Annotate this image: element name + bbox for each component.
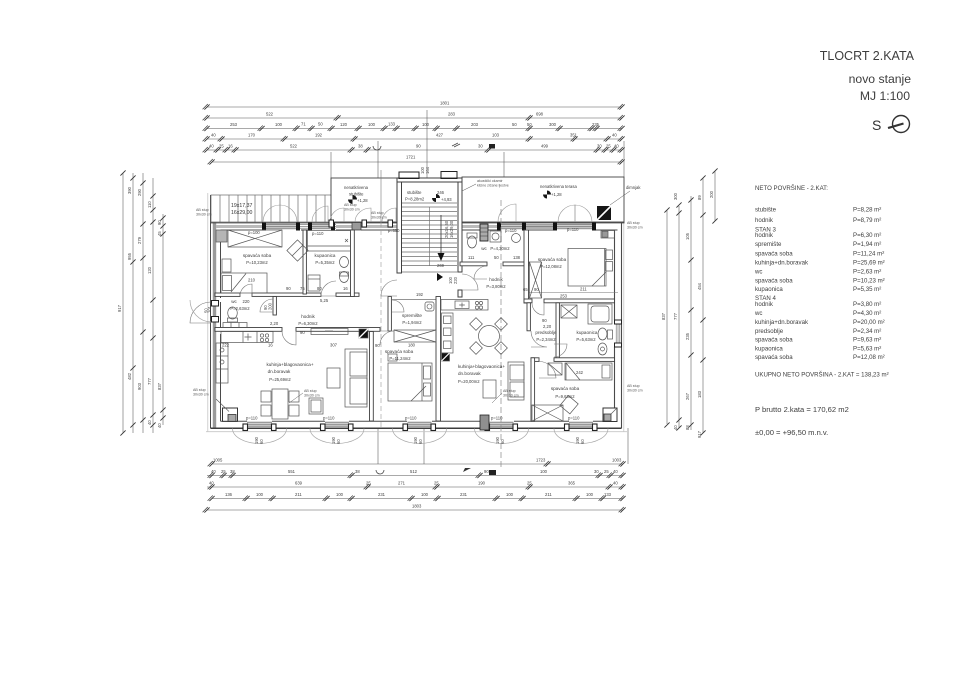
svg-text:P=2,63m2: P=2,63m2 — [230, 306, 250, 311]
svg-text:170: 170 — [248, 133, 256, 138]
ticks left c2 — [130, 175, 135, 180]
svg-text:16: 16 — [343, 286, 348, 291]
dim line row5 — [207, 149, 622, 151]
svg-text:kuhinja+blagovaonica+: kuhinja+blagovaonica+ — [267, 362, 314, 367]
stair block walls — [397, 178, 462, 297]
right dim stub 200 — [714, 171, 716, 221]
wall L predsoblje west — [527, 303, 530, 331]
svg-text:1803: 1803 — [412, 504, 422, 509]
ticks right c1 — [664, 207, 669, 212]
svg-text:136: 136 — [225, 492, 233, 497]
kitchen4 fridge column — [442, 313, 454, 353]
dim line 1721 — [212, 161, 622, 163]
small interior dim numbers — [222, 255, 587, 375]
svg-text:133: 133 — [388, 122, 396, 127]
svg-text:P=25,69 m²: P=25,69 m² — [853, 260, 885, 267]
door arc bedroom963 — [539, 361, 556, 378]
right exterior wall — [615, 223, 622, 428]
ticks left c5 — [160, 215, 165, 220]
wall H center party wall — [436, 297, 441, 422]
svg-text:300: 300 — [549, 122, 557, 127]
wall B bedroom/kupaonica — [303, 230, 306, 294]
svg-text:40: 40 — [209, 481, 214, 486]
svg-text:50: 50 — [527, 122, 532, 127]
svg-text:235: 235 — [592, 122, 600, 127]
small arc symbol on row5 — [373, 146, 381, 150]
window hatch strips top wall — [266, 223, 592, 230]
wall A hodnik north (left apt) — [215, 293, 240, 296]
spav12 wardrobe — [530, 262, 542, 298]
svg-text:wc: wc — [754, 310, 762, 317]
svg-text:P=25,69m2: P=25,69m2 — [269, 377, 291, 382]
svg-text:777: 777 — [673, 312, 678, 320]
svg-text:hodnik: hodnik — [301, 314, 315, 319]
svg-text:111: 111 — [468, 255, 475, 260]
svg-text:wc: wc — [231, 299, 237, 304]
entry door arc left wall — [190, 302, 211, 323]
svg-text:kupaonica: kupaonica — [577, 330, 598, 335]
leader line AB stup kitchen3 — [289, 393, 303, 403]
svg-text:stubište: stubište — [407, 190, 422, 195]
svg-text:kuhinja+dn.boravak: kuhinja+dn.boravak — [755, 260, 809, 267]
coffee table — [309, 398, 323, 414]
svg-text:2,20: 2,20 — [543, 324, 552, 329]
svg-text:90: 90 — [286, 286, 291, 291]
svg-text:269: 269 — [437, 263, 445, 268]
svg-text:279: 279 — [137, 236, 142, 244]
bottom windows thin lines — [247, 423, 593, 427]
svg-text:80: 80 — [317, 286, 322, 291]
svg-text:192: 192 — [315, 133, 323, 138]
tv sideboard — [311, 329, 348, 335]
sofa — [345, 349, 367, 407]
svg-text:203: 203 — [471, 122, 479, 127]
svg-text:spavaća soba: spavaća soba — [551, 386, 580, 391]
svg-text:AB stup: AB stup — [627, 384, 640, 388]
door arc spremiste — [392, 300, 404, 312]
svg-text:90: 90 — [375, 343, 380, 348]
svg-text:220: 220 — [243, 299, 251, 304]
dining table3 — [272, 389, 288, 419]
dim line row3 — [207, 128, 622, 130]
wall E hodnik south — [215, 328, 282, 332]
svg-text:242: 242 — [576, 370, 584, 375]
svg-text:dn.boravak: dn.boravak — [458, 371, 481, 376]
svg-text:100: 100 — [275, 122, 283, 127]
bed small table 963 — [548, 363, 562, 375]
svg-text:kuhinja+dn.boravak: kuhinja+dn.boravak — [755, 319, 809, 326]
stair down arrow — [440, 215, 442, 253]
bathtub kupaonica3 — [308, 231, 351, 252]
svg-text:spavaća soba: spavaća soba — [538, 257, 567, 262]
svg-text:200: 200 — [268, 302, 273, 310]
svg-text:AB stup: AB stup — [304, 389, 317, 393]
svg-text:190: 190 — [478, 481, 486, 486]
svg-text:499: 499 — [541, 144, 549, 149]
bottom dim numbers — [209, 458, 622, 509]
bedroom963 bed — [565, 363, 612, 380]
svg-text:AB stup: AB stup — [196, 208, 209, 212]
svg-text:71: 71 — [301, 122, 306, 127]
dim line b5 — [207, 509, 623, 511]
svg-text:40: 40 — [612, 133, 617, 138]
dim line b2 — [207, 475, 623, 477]
arcs at open stair bottom — [330, 208, 396, 222]
svg-text:p=110: p=110 — [323, 416, 335, 421]
svg-text:16x29,00: 16x29,00 — [449, 220, 454, 238]
left wall window posts wc3 — [212, 301, 219, 323]
door arc kupaonica3 — [321, 281, 336, 296]
svg-text:kupaonica: kupaonica — [755, 346, 783, 353]
left dim line 4 — [152, 178, 154, 433]
ticks top row3 — [203, 126, 210, 132]
water heater — [425, 302, 434, 311]
svg-text:16: 16 — [268, 343, 273, 348]
door arc wc3 — [260, 299, 273, 312]
svg-text:P=12,08 m²: P=12,08 m² — [853, 354, 885, 361]
door arc bedroom1124 — [380, 331, 394, 345]
svg-text:30x30 cm: 30x30 cm — [193, 393, 209, 397]
wardrobe bedroom1 — [228, 230, 282, 247]
coffee table4 — [483, 380, 496, 398]
svg-text:novo stanje: novo stanje — [849, 72, 912, 86]
window end posts top — [262, 222, 335, 231]
svg-text:spavaća soba: spavaća soba — [243, 253, 272, 258]
svg-text:stubište: stubište — [755, 207, 777, 214]
bedroom1124 wardrobe — [394, 330, 436, 342]
svg-text:138: 138 — [513, 255, 521, 260]
door arc kitchen3 — [282, 331, 296, 345]
svg-text:p=110: p=110 — [505, 228, 517, 233]
chairs — [261, 391, 271, 402]
svg-text:30x30 cm: 30x30 cm — [344, 208, 360, 212]
svg-text:231: 231 — [460, 492, 468, 497]
svg-text:211: 211 — [580, 287, 587, 292]
wall D wc east — [273, 297, 276, 316]
svg-text:AB stup: AB stup — [627, 221, 640, 225]
svg-text:40: 40 — [157, 423, 162, 428]
svg-text:522: 522 — [266, 112, 274, 117]
svg-text:120: 120 — [340, 122, 348, 127]
window hatch strips bottom wall — [247, 421, 593, 427]
bedroom1124 bed — [388, 363, 432, 401]
wall G spremiste west — [388, 297, 391, 332]
svg-text:5,25: 5,25 — [320, 298, 329, 303]
svg-text:MJ 1:100: MJ 1:100 — [860, 89, 910, 103]
svg-text:955: 955 — [127, 252, 132, 260]
svg-text:spavaća soba: spavaća soba — [755, 251, 793, 258]
svg-text:25: 25 — [434, 481, 439, 486]
svg-text:210: 210 — [248, 278, 256, 283]
top exterior wall right section — [462, 223, 625, 230]
top dim numbers — [209, 101, 619, 160]
kupaonica4 tub — [588, 304, 612, 324]
svg-text:dimnjak: dimnjak — [626, 185, 641, 190]
door arc stan4 entry — [462, 274, 478, 290]
dim line 1801 — [207, 106, 622, 108]
svg-text:spavaća soba: spavaća soba — [385, 349, 414, 354]
svg-text:AB stup: AB stup — [344, 203, 357, 207]
ticks top row6 — [208, 159, 215, 165]
svg-text:kupaonica: kupaonica — [755, 286, 783, 293]
wall K kupaonica4 south — [531, 358, 539, 362]
flue shaft hatched — [480, 224, 488, 241]
svg-text:spremište: spremište — [755, 241, 782, 248]
kupaonica4 bidet — [598, 343, 607, 355]
black square b2 — [489, 470, 496, 475]
ticks bottom b4 — [208, 496, 215, 502]
svg-text:40: 40 — [211, 469, 216, 474]
svg-text:16: 16 — [228, 144, 233, 149]
svg-text:90: 90 — [157, 220, 162, 225]
svg-text:wc: wc — [481, 246, 487, 251]
svg-text:2,20: 2,20 — [270, 321, 279, 326]
wall M bedroom963 west — [531, 358, 535, 422]
svg-text:100: 100 — [368, 122, 376, 127]
svg-text:25: 25 — [221, 469, 226, 474]
entry arrow stan4 — [437, 273, 443, 281]
svg-text:akustički okamir: akustički okamir — [477, 179, 503, 183]
svg-text:P=4,30m2: P=4,30m2 — [490, 246, 510, 251]
svg-text:P=8,28 m²: P=8,28 m² — [853, 207, 881, 214]
right dim line 3 — [690, 196, 692, 430]
small flag b2 — [463, 468, 471, 472]
svg-text:211: 211 — [295, 492, 302, 497]
svg-text:P=5,63 m²: P=5,63 m² — [853, 346, 881, 353]
ticks bottom b5 — [203, 507, 210, 513]
left dim line 5 — [162, 214, 164, 425]
leader line AB stup kitchen4 — [492, 393, 502, 403]
svg-text:30x30 cm: 30x30 cm — [196, 213, 212, 217]
svg-text:30: 30 — [478, 144, 483, 149]
svg-text:639: 639 — [295, 481, 303, 486]
svg-text:stubište: stubište — [349, 192, 364, 197]
svg-text:40: 40 — [613, 469, 618, 474]
svg-text:40: 40 — [209, 144, 214, 149]
svg-text:16x29,00: 16x29,00 — [231, 210, 252, 216]
svg-text:P=5,35m2: P=5,35m2 — [315, 260, 335, 265]
axis stubs top — [426, 110, 428, 178]
svg-text:90: 90 — [542, 318, 547, 323]
ticks right c3 — [688, 197, 693, 202]
bed bedroom1 — [221, 273, 267, 293]
svg-text:75: 75 — [300, 286, 305, 291]
svg-text:120: 120 — [147, 266, 152, 274]
svg-text:40: 40 — [614, 144, 619, 149]
svg-text:spavaća soba: spavaća soba — [755, 354, 793, 361]
svg-text:AB stup: AB stup — [193, 388, 206, 392]
ticks top row1 — [203, 104, 210, 110]
left exterior wall — [211, 195, 221, 428]
svg-text:220: 220 — [453, 276, 458, 284]
svg-text:1721: 1721 — [406, 155, 416, 160]
svg-text:P=20,00 m²: P=20,00 m² — [853, 319, 885, 326]
svg-text:25: 25 — [606, 144, 611, 149]
svg-text:522: 522 — [290, 144, 298, 149]
svg-text:103: 103 — [492, 133, 500, 138]
stair niche top left — [399, 172, 419, 179]
pinwheel symbol — [348, 195, 357, 204]
svg-text:110: 110 — [147, 201, 152, 208]
kupaonica4 shower — [561, 305, 577, 318]
svg-text:427: 427 — [436, 133, 444, 138]
sink kupaonica3 — [340, 257, 349, 268]
svg-text:551: 551 — [288, 469, 296, 474]
svg-text:P=1,94m2: P=1,94m2 — [402, 320, 422, 325]
svg-text:AB stup: AB stup — [503, 389, 516, 393]
svg-text:1723: 1723 — [536, 458, 546, 463]
svg-text:917: 917 — [117, 304, 122, 312]
door arc spav12 — [532, 303, 544, 315]
wall F kitchen/bedroom divider — [370, 332, 374, 422]
svg-text:183: 183 — [697, 390, 702, 398]
door arc predsoblje entry — [531, 331, 547, 347]
svg-text:p=110: p=110 — [388, 228, 400, 233]
svg-text:253: 253 — [560, 294, 568, 299]
door arc kupaonica4 — [554, 344, 567, 357]
svg-text:P=10,23m2: P=10,23m2 — [246, 260, 268, 265]
svg-text:30x30 cm: 30x30 cm — [371, 216, 387, 220]
svg-text:NETO POVRŠINE - 2.KAT:: NETO POVRŠINE - 2.KAT: — [755, 185, 828, 192]
svg-text:P=2,34m2: P=2,34m2 — [536, 337, 556, 342]
svg-text:100: 100 — [422, 122, 430, 127]
svg-text:P=3,80m2: P=3,80m2 — [486, 284, 506, 289]
svg-text:38: 38 — [355, 469, 360, 474]
svg-text:100: 100 — [506, 492, 514, 497]
wc3 low cabinet — [223, 323, 247, 328]
svg-text:50: 50 — [318, 122, 323, 127]
kitchen4 corner lamp — [442, 353, 450, 361]
svg-text:hodnik: hodnik — [489, 277, 503, 282]
svg-text:100: 100 — [256, 492, 264, 497]
svg-text:38: 38 — [230, 469, 235, 474]
svg-text:365: 365 — [568, 481, 576, 486]
svg-text:88: 88 — [685, 425, 690, 430]
svg-text:100: 100 — [586, 492, 594, 497]
svg-text:kuhinja+blagovaonica+: kuhinja+blagovaonica+ — [458, 364, 505, 369]
svg-text:307: 307 — [330, 343, 338, 348]
right dim line 2 — [678, 206, 680, 428]
bottom exterior wall — [211, 427, 622, 429]
svg-text:P=3,80 m²: P=3,80 m² — [853, 301, 881, 308]
svg-text:P=12,08m2: P=12,08m2 — [540, 264, 562, 269]
bottom dimension chains — [207, 428, 628, 510]
svg-text:wc: wc — [754, 269, 762, 276]
svg-text:454: 454 — [697, 282, 702, 290]
svg-text:S: S — [872, 117, 881, 133]
svg-text:P=6,30 m²: P=6,30 m² — [853, 232, 881, 239]
wall wc4 south — [460, 262, 487, 266]
sink cross — [245, 334, 252, 341]
svg-text:246: 246 — [437, 190, 445, 195]
svg-text:p=110: p=110 — [405, 416, 417, 421]
svg-text:P=2,63 m²: P=2,63 m² — [853, 269, 881, 276]
svg-text:+4,93: +4,93 — [441, 197, 452, 202]
svg-text:1005: 1005 — [213, 458, 223, 463]
svg-text:TLOCRT 2.KATA: TLOCRT 2.KATA — [820, 49, 915, 63]
wall J predsoblje/kupaonica4 — [556, 303, 559, 358]
svg-text:nenatkrivena: nenatkrivena — [344, 185, 369, 190]
svg-text:+1,28: +1,28 — [357, 198, 368, 203]
svg-text:AB stup: AB stup — [371, 211, 384, 215]
wc kupaonica3 — [340, 272, 349, 283]
nightstand 1124 — [388, 354, 397, 361]
dim line b3 — [207, 486, 623, 488]
svg-text:nenatkrivena terasa: nenatkrivena terasa — [540, 184, 577, 189]
svg-text:40: 40 — [211, 133, 216, 138]
svg-text:predsoblje: predsoblje — [755, 328, 784, 335]
right dim line 1 — [666, 210, 668, 424]
svg-text:38: 38 — [358, 144, 363, 149]
left dim line 3 — [142, 173, 144, 433]
svg-text:P=5,35 m²: P=5,35 m² — [853, 286, 881, 293]
posts at open stair bottom — [329, 220, 393, 227]
chair diamond 963 — [560, 396, 578, 414]
bottom window posts — [243, 424, 597, 431]
svg-text:19x17,37: 19x17,37 — [231, 203, 252, 209]
wall C kupaonica east — [351, 230, 355, 297]
dim line 522/283/308 — [207, 117, 622, 119]
svg-text:P=11,24 m²: P=11,24 m² — [853, 251, 884, 258]
svg-text:25: 25 — [366, 481, 371, 486]
svg-text:+1,28: +1,28 — [551, 192, 562, 197]
svg-text:40: 40 — [673, 425, 678, 430]
svg-text:65: 65 — [523, 287, 528, 292]
svg-text:30x30 cm: 30x30 cm — [627, 226, 643, 230]
wc3 toilet — [228, 307, 238, 319]
svg-text:253: 253 — [230, 122, 238, 127]
armchair — [327, 368, 340, 388]
svg-text:P=2,34 m²: P=2,34 m² — [853, 328, 881, 335]
svg-text:482: 482 — [127, 372, 132, 380]
svg-text:89: 89 — [697, 195, 702, 200]
right rotated numbers — [661, 190, 714, 438]
p=110 labels top — [248, 227, 579, 236]
svg-text:p=110: p=110 — [246, 416, 258, 421]
kitchen top counter — [221, 332, 273, 343]
svg-text:40: 40 — [147, 420, 152, 425]
svg-text:30: 30 — [594, 469, 599, 474]
ticks right c4 — [700, 175, 705, 180]
stair treads — [402, 203, 458, 272]
ticks left c4 — [150, 193, 155, 198]
svg-text:90: 90 — [416, 144, 421, 149]
svg-text:P=9,63 m²: P=9,63 m² — [853, 337, 881, 344]
left dim line 1 — [122, 173, 124, 433]
svg-text:60: 60 — [259, 439, 264, 444]
dresser bedroom1 — [216, 230, 227, 242]
svg-text:predsoblje: predsoblje — [535, 330, 557, 335]
svg-text:200: 200 — [709, 190, 714, 198]
eaves faint outline — [206, 193, 627, 432]
svg-text:P=20,00m2: P=20,00m2 — [458, 379, 480, 384]
ticks top row4 — [203, 136, 210, 142]
svg-text:211: 211 — [545, 492, 552, 497]
svg-text:837: 837 — [157, 382, 162, 390]
terrace door arcs above top windows — [263, 205, 280, 222]
sofa4 — [508, 362, 524, 400]
stair flag — [432, 194, 440, 202]
svg-text:60: 60 — [418, 439, 423, 444]
svg-text:164: 164 — [425, 166, 430, 174]
svg-text:±0,00 = +96,50 m.n.v.: ±0,00 = +96,50 m.n.v. — [755, 428, 828, 437]
gray stup bottom center — [480, 415, 489, 430]
rotated 190/60 labels under windows — [254, 436, 585, 444]
small arc symbol b1 — [376, 470, 384, 474]
top dimension chains — [207, 107, 624, 196]
corner lamp black — [359, 329, 368, 338]
kitchen4 counter horizontal — [441, 300, 488, 311]
